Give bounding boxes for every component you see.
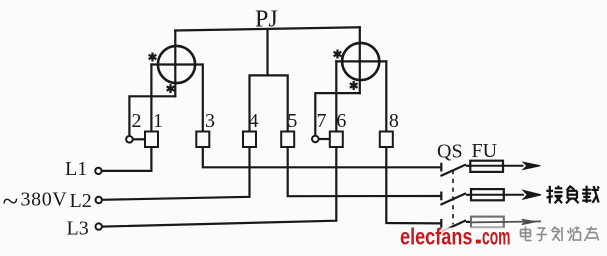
wire riser terminal 1 xyxy=(150,65,152,132)
wire split to terminals 4 and 5 xyxy=(250,75,288,131)
wire terminal 3 to switch QS pole 1 xyxy=(203,147,440,167)
svg-text:4: 4 xyxy=(249,110,259,132)
wire riser terminal 8 xyxy=(385,61,387,131)
arrow output line 2 xyxy=(523,191,541,200)
svg-text:2: 2 xyxy=(132,110,142,132)
polarity asterisk element 2 voltage coil xyxy=(350,81,358,90)
wire terminal 8 to switch QS pole 3 xyxy=(386,147,440,223)
wire L1 phase lead to terminal 1 xyxy=(102,147,152,171)
terminal 2 circle xyxy=(126,136,133,143)
current coil circle of element 1 xyxy=(158,46,195,83)
polarity asterisk element 1 voltage coil xyxy=(167,84,175,93)
svg-text:~: ~ xyxy=(3,186,19,218)
polarity asterisk element 2 current coil xyxy=(334,50,342,59)
wire current coil chord terminal 6 to 8 xyxy=(336,60,386,62)
terminal 4 box xyxy=(243,132,256,148)
node L2 terminal circle xyxy=(96,197,102,203)
terminal 1 box xyxy=(145,132,158,148)
label load 接负载 (connect load) drawn strokes xyxy=(546,186,599,204)
svg-text:1: 1 xyxy=(153,110,163,132)
svg-text:com: com xyxy=(482,224,511,250)
wire L3 phase lead to terminal 6 xyxy=(102,147,336,227)
wire terminal 2 link to terminal 1 box xyxy=(133,138,145,140)
fuse FU 3 xyxy=(471,217,541,228)
node L1 terminal circle xyxy=(95,168,101,174)
svg-text:380V: 380V xyxy=(21,189,68,211)
terminal 6 box xyxy=(330,132,343,148)
watermark white backing band xyxy=(397,228,607,248)
wire top rail of meter PJ xyxy=(175,27,359,30)
switch QS pole 3 xyxy=(441,219,472,232)
fuse FU 2 xyxy=(471,189,524,200)
svg-text:QS: QS xyxy=(437,141,463,163)
polarity asterisk element 1 current coil xyxy=(149,53,157,62)
svg-text:7: 7 xyxy=(317,110,327,132)
arrow output line 3 head xyxy=(522,219,536,224)
wire voltage tap of element 2 to terminal 7 xyxy=(315,93,360,136)
current coil circle of element 2 xyxy=(342,43,379,80)
watermark 电子发烧友 gray text drawn strokes xyxy=(521,227,599,242)
switch QS pole 1 xyxy=(441,163,471,176)
arrow output line 1 xyxy=(523,162,540,169)
wire vertical through element 2 (voltage coil) xyxy=(359,27,361,93)
svg-text:L3: L3 xyxy=(67,218,89,240)
svg-text:5: 5 xyxy=(287,110,297,132)
node L3 terminal circle xyxy=(96,223,102,229)
svg-text:L2: L2 xyxy=(70,190,92,212)
svg-text:PJ: PJ xyxy=(255,7,278,33)
wire riser terminal 6 xyxy=(335,61,337,131)
svg-text:L1: L1 xyxy=(65,158,87,180)
wire terminal 7 link to terminal 6 box xyxy=(319,138,330,140)
wire L2 phase lead to terminal 4 xyxy=(102,147,250,200)
svg-text:8: 8 xyxy=(389,110,399,132)
terminal 8 box xyxy=(380,132,393,148)
switch QS pole 2 xyxy=(441,192,472,205)
fuse FU 1 xyxy=(470,161,523,172)
watermark red dot separator xyxy=(476,240,481,244)
switch QS linkage dashed line xyxy=(452,170,454,225)
terminal 5 box xyxy=(281,132,294,148)
wire current coil chord terminal 1 to 3 xyxy=(151,63,201,65)
terminal 7 circle xyxy=(312,136,319,143)
svg-text:elecfans: elecfans xyxy=(400,224,473,250)
svg-text:FU: FU xyxy=(472,140,498,162)
wire voltage tap of element 1 to terminal 2 xyxy=(129,96,175,136)
wire vertical through element 1 (voltage coil) xyxy=(174,31,176,97)
terminal 3 box xyxy=(196,132,209,148)
svg-text:3: 3 xyxy=(205,110,215,132)
wire riser terminal 3 xyxy=(202,65,204,132)
wire terminal 5 to switch QS pole 2 xyxy=(288,147,441,196)
wire PJ center drop xyxy=(266,29,268,75)
svg-text:6: 6 xyxy=(336,110,346,132)
